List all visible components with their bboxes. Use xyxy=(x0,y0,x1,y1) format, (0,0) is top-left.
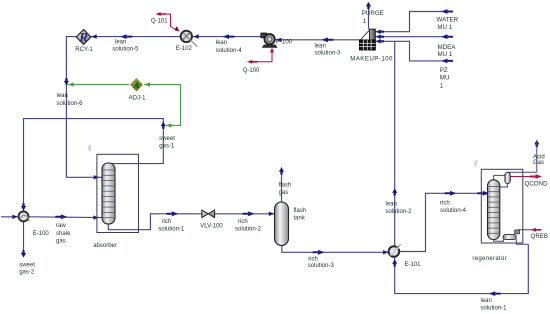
arrow WATER MU 1 xyxy=(441,9,453,14)
wire PURGE 1 (MAKEUP-100 top) xyxy=(368,5,370,29)
svg-text:solution-1: solution-1 xyxy=(481,306,508,312)
svg-text:Gas: Gas xyxy=(533,160,544,166)
column regenerator tower xyxy=(488,140,537,244)
arrow lean solution-4 xyxy=(223,34,235,39)
svg-text:solution-6: solution-6 xyxy=(57,101,84,107)
svg-text:lean: lean xyxy=(115,39,126,45)
absorber sub-flowsheet box xyxy=(87,145,139,233)
arrow ADJ-1 to lean solution-6 tip xyxy=(68,82,74,86)
svg-text:gas: gas xyxy=(56,238,66,244)
svg-text:PURGE: PURGE xyxy=(362,10,384,17)
wire Q-100 energy (to P-100) xyxy=(256,51,272,62)
arrow MDEA MU 1 xyxy=(441,34,453,39)
wire ADJ-1 to lean solution-6 xyxy=(66,84,129,86)
svg-text:MU 1: MU 1 xyxy=(437,24,452,31)
arrow PZ MU 1 xyxy=(441,59,453,64)
svg-text:raw: raw xyxy=(56,223,66,229)
svg-text:solution-3: solution-3 xyxy=(308,263,335,269)
arrow into RCY-1 xyxy=(91,34,97,38)
svg-text:solution-3: solution-3 xyxy=(315,50,342,56)
svg-text:rich: rich xyxy=(162,219,172,225)
arrow into P-100 xyxy=(276,38,282,42)
wire MDEA MU 1 xyxy=(376,36,453,38)
svg-text:sweet: sweet xyxy=(159,136,175,142)
arrow rich solution-1 xyxy=(166,211,178,216)
condenser (regenerator) xyxy=(505,172,510,183)
svg-text:lean: lean xyxy=(481,298,492,304)
arrow rich solution-2 xyxy=(243,211,255,216)
makeup block MAKEUP-100 xyxy=(359,29,375,50)
arrow rich solution-4 xyxy=(445,191,457,196)
arrow raw feed into E-100 xyxy=(12,215,18,219)
arrow rich solution-3 xyxy=(313,250,325,255)
heat exchanger E-101 xyxy=(389,244,401,256)
svg-text:MAKEUP-100: MAKEUP-100 xyxy=(350,55,393,62)
arrow lean solution-6 into absorber xyxy=(94,175,100,179)
wire sweet gas-2 (E-100 down) xyxy=(23,221,25,251)
wire lean solution-6 (RCY-1 down to absorber) xyxy=(66,37,101,178)
svg-text:ADJ-1: ADJ-1 xyxy=(129,95,146,101)
svg-text:1: 1 xyxy=(440,82,444,89)
pump P-100 xyxy=(261,33,277,47)
svg-text:rich: rich xyxy=(440,201,450,207)
arrow lean solution-2 up xyxy=(392,188,397,195)
svg-text:Q-100: Q-100 xyxy=(243,68,260,74)
svg-text:solution-4: solution-4 xyxy=(440,208,467,214)
wire lean solution-1 (regenerator bottom to E-101) xyxy=(395,244,529,293)
arrow lean solution-3 xyxy=(322,37,334,42)
svg-text:tank: tank xyxy=(294,216,306,222)
svg-text:E-101: E-101 xyxy=(405,262,422,268)
svg-text:sweet: sweet xyxy=(19,262,35,268)
vessel flash tank xyxy=(275,202,289,246)
svg-text:MDEA: MDEA xyxy=(438,44,457,51)
arrow sweet gas-2 down xyxy=(21,250,26,257)
arrow lean solution-1 up into E-101 xyxy=(392,259,397,266)
reboiler (regenerator) xyxy=(503,230,520,239)
adjust ADJ-1 xyxy=(131,79,143,91)
svg-text:solution-5: solution-5 xyxy=(112,47,139,53)
svg-text:P-100: P-100 xyxy=(276,39,293,45)
svg-text:gas: gas xyxy=(279,190,289,196)
arrow lean solution-1 left xyxy=(489,291,501,296)
svg-text:MU 1: MU 1 xyxy=(438,51,453,58)
arrow raw gas into absorber xyxy=(93,215,99,219)
heat exchanger E-102 xyxy=(181,31,198,47)
arrow Q-100 energy xyxy=(247,60,258,64)
wire lean solution-3 (MAKEUP-100 to P-100) xyxy=(275,39,360,41)
svg-text:lean: lean xyxy=(57,93,68,99)
svg-text:lean: lean xyxy=(315,43,326,49)
arrow QCOND right xyxy=(530,174,542,179)
svg-text:rich: rich xyxy=(308,256,318,262)
svg-text:lean: lean xyxy=(216,40,227,46)
arrow green sense tip at sweet gas-1 xyxy=(166,123,172,127)
wire lean solution-4 (P-100 to E-102) xyxy=(192,36,261,38)
svg-text:RCY-1: RCY-1 xyxy=(75,47,93,53)
svg-text:1: 1 xyxy=(363,18,367,25)
svg-text:QREB: QREB xyxy=(531,233,549,240)
valve VLV-100 xyxy=(202,210,215,218)
arrow into ADJ-1 tip xyxy=(145,82,151,86)
regenerator sub-flowsheet box xyxy=(473,160,523,243)
arrow Q-101 energy xyxy=(155,12,166,16)
arrow lean solution-6 down xyxy=(64,78,69,85)
svg-text:gas-1: gas-1 xyxy=(159,143,175,149)
wire raw shale gas feed (left into E-100) xyxy=(1,216,19,218)
svg-text:regenerator: regenerator xyxy=(472,256,507,262)
svg-text:shale: shale xyxy=(56,231,71,237)
wire ADJ-1 sense line to sweet gas-1 xyxy=(144,85,181,126)
svg-text:Q-101: Q-101 xyxy=(151,19,168,25)
arrow sweet gas-1 up xyxy=(161,122,166,129)
svg-text:absorber: absorber xyxy=(93,243,117,249)
svg-text:A: A xyxy=(133,80,140,90)
svg-text:solution-2: solution-2 xyxy=(386,209,413,215)
svg-text:abs: abs xyxy=(87,145,92,152)
svg-text:PZ: PZ xyxy=(440,67,448,74)
wire lean solution-2 (E-101 up to MAKEUP-100) xyxy=(394,41,396,246)
arrow Q-100 tip at P-100 xyxy=(270,48,274,53)
svg-text:flash: flash xyxy=(279,183,292,189)
svg-text:solution-1: solution-1 xyxy=(158,227,185,233)
arrow rich solution-4 into column xyxy=(477,191,489,196)
svg-text:VLV-100: VLV-100 xyxy=(200,223,223,229)
wire WATER MU 1 xyxy=(376,12,453,32)
arrow into E-102 xyxy=(193,34,199,38)
wire PZ MU 1 xyxy=(376,41,453,61)
svg-text:QCOND: QCOND xyxy=(525,181,549,188)
wire raw shale gas (E-100 to absorber) xyxy=(29,216,102,219)
svg-text:solution-2: solution-2 xyxy=(235,227,262,233)
wire rich solution-1 (absorber bottom to VLV-100) xyxy=(108,214,202,230)
recycle RCY-1 xyxy=(76,30,91,45)
wire lean solution-5 (E-102 to RCY-1) xyxy=(91,36,181,38)
arrow into flash tank xyxy=(269,212,275,216)
column absorber tower xyxy=(102,163,115,224)
arrow acid gas up xyxy=(534,140,539,147)
svg-text:MU: MU xyxy=(440,75,450,82)
wire rich solution-2 (VLV-100 to flash tank) xyxy=(215,213,275,215)
wire rich solution-3 (flash tank bottom to E-101) xyxy=(282,246,389,253)
svg-text:WATER: WATER xyxy=(437,17,459,24)
arrow QREB left xyxy=(531,228,542,232)
wire flash gas (flash tank top) xyxy=(281,168,283,204)
arrow MAKEUP-100 inlet top xyxy=(376,29,384,34)
svg-text:E-102: E-102 xyxy=(176,46,193,52)
arrow PURGE up xyxy=(366,2,371,9)
arrow Q-101 tip at E-102 xyxy=(174,26,179,31)
wire QCOND energy (condenser out) xyxy=(510,176,531,178)
arrow MAKEUP-100 inlet mid xyxy=(376,34,384,39)
wire rich solution-4 (E-101 to regenerator) xyxy=(400,193,488,251)
wire sweet gas-1 (absorber top to E-100) xyxy=(24,119,164,212)
svg-text:reg: reg xyxy=(473,160,478,167)
svg-text:lean: lean xyxy=(386,202,397,208)
arrow flash gas up xyxy=(279,167,284,174)
wire Q-101 energy (to E-102) xyxy=(163,14,175,29)
arrow raw shale gas xyxy=(55,214,67,219)
svg-text:rich: rich xyxy=(238,219,248,225)
heat exchanger E-100 xyxy=(19,211,30,221)
svg-text:R: R xyxy=(78,30,88,45)
arrow lean solution-5 xyxy=(120,34,132,39)
arrow into E-101 left xyxy=(383,250,389,254)
svg-text:flash: flash xyxy=(294,208,307,214)
svg-text:gas-2: gas-2 xyxy=(19,270,35,276)
arrow MAKEUP-100 inlet bottom xyxy=(376,39,384,44)
svg-text:solution-4: solution-4 xyxy=(216,48,243,54)
svg-text:E-100: E-100 xyxy=(33,231,50,237)
arrow into E-100 top xyxy=(21,203,26,210)
wire QREB energy (into reboiler) xyxy=(518,229,542,231)
